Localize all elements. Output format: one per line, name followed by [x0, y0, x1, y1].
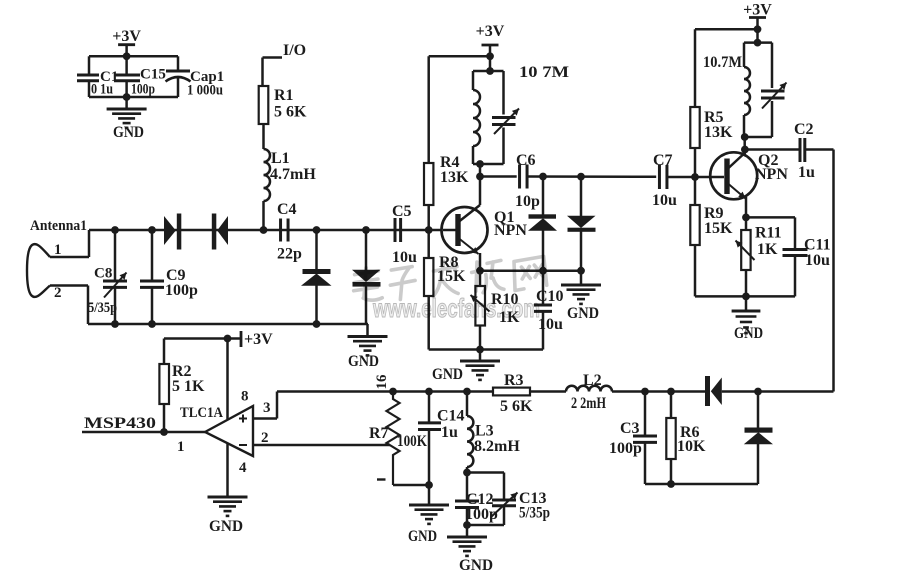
svg-text:5/35p: 5/35p	[88, 300, 117, 316]
node C12 ground junction	[463, 521, 471, 529]
watermark chinese glyphs	[352, 254, 547, 302]
wire C6 to C7	[527, 175, 656, 178]
capacitor C11 10u	[794, 217, 797, 249]
svg-text:GND: GND	[432, 366, 463, 383]
node clipper D5 tap	[539, 173, 547, 181]
svg-text:C14: C14	[437, 408, 465, 425]
power rail +3V (left tank)	[482, 44, 499, 47]
svg-text:R3: R3	[504, 372, 524, 389]
node Q2 rail ground	[742, 293, 750, 301]
svg-text:L1: L1	[271, 150, 290, 167]
svg-text:www.elecfans.com: www.elecfans.com	[372, 293, 540, 323]
svg-text:10u: 10u	[805, 252, 830, 269]
svg-text:100p: 100p	[609, 440, 642, 457]
wire antenna bottom rail	[88, 323, 368, 326]
diode D4 (clipper, cathode down)	[362, 226, 370, 234]
wire bottom rail of cap bank	[89, 96, 178, 99]
pin 2 of U1 (-)	[253, 444, 390, 447]
svg-text:2 2mH: 2 2mH	[571, 395, 606, 412]
svg-text:NPN: NPN	[755, 166, 788, 183]
wire I/O to R1	[263, 56, 283, 59]
capacitor C2 1u	[799, 138, 802, 162]
svg-text:I/O: I/O	[283, 42, 306, 59]
capacitor C3 100p	[644, 392, 647, 436]
svg-text:8: 8	[241, 389, 249, 405]
svg-text:15K: 15K	[704, 220, 733, 237]
diode D6 (clipper, cathode down)	[580, 177, 583, 216]
wire Q1 emitter rail	[480, 269, 581, 272]
ground GND (Q1 rail)	[479, 350, 482, 362]
power rail +3V (top-left)	[118, 43, 135, 46]
capacitor C15	[125, 56, 128, 75]
wire comparator input line (16)	[277, 390, 493, 393]
svg-text:1K: 1K	[757, 241, 778, 258]
svg-text:3: 3	[263, 400, 271, 416]
capacitor C10 10u	[542, 271, 545, 305]
power tap +3V (comparator)	[164, 337, 241, 340]
node R7 tap	[389, 388, 397, 396]
svg-text:10K: 10K	[677, 438, 706, 455]
inductor L3 8.2mH	[466, 392, 469, 417]
transistor Q1 NPN	[442, 207, 488, 253]
wire C2 to right vertical	[805, 148, 834, 151]
svg-text:10.7M: 10.7M	[703, 54, 742, 71]
svg-text:5 6K: 5 6K	[274, 104, 307, 121]
svg-text:5 6K: 5 6K	[500, 398, 533, 415]
node C2 tap	[741, 146, 749, 154]
svg-text:100p: 100p	[131, 82, 155, 98]
svg-text:Antenna1: Antenna1	[30, 218, 87, 234]
wire tank to Q1 collector node	[479, 164, 482, 177]
wire L2 to detector diode	[612, 390, 705, 393]
op-amp U1 TLC1A	[205, 406, 253, 456]
ground GND (Q2)	[745, 296, 748, 311]
node tank bottom	[476, 160, 484, 168]
svg-text:C5: C5	[392, 203, 412, 220]
svg-text:10u: 10u	[392, 249, 417, 266]
node L1/C4 junction	[260, 226, 268, 234]
svg-text:1u: 1u	[441, 424, 458, 441]
svg-text:C7: C7	[653, 152, 673, 169]
svg-text:10 7M: 10 7M	[519, 64, 569, 81]
svg-text:1: 1	[177, 439, 185, 455]
svg-text:10u: 10u	[652, 192, 677, 209]
wire +3V rail to R5	[695, 28, 758, 31]
svg-text:NPN: NPN	[494, 222, 527, 239]
ground GND (clipper pair)	[580, 271, 583, 285]
capacitor C9 100p	[148, 226, 156, 234]
inductor L1 4.7mH	[264, 149, 271, 201]
wire R5 to base node	[694, 148, 697, 177]
ground GND (cap bank)	[107, 108, 147, 111]
node R2 output junction	[160, 428, 168, 436]
svg-text:5/35p: 5/35p	[519, 505, 550, 522]
resistor R6 10K	[670, 392, 673, 419]
capacitor Cap1 (electrolytic)	[177, 56, 180, 71]
svg-text:22p: 22p	[277, 246, 302, 263]
svg-text:+3V: +3V	[476, 23, 505, 40]
node Q1 base / divider	[425, 226, 433, 234]
wire R1 to L1	[262, 124, 265, 149]
wire antenna pin2 to bottom rail	[50, 284, 88, 287]
svg-text:2: 2	[261, 430, 269, 446]
capacitor C8 5/35p (variable)	[111, 226, 119, 234]
wire RF bus	[89, 229, 443, 232]
svg-text:MSP430: MSP430	[84, 415, 156, 432]
wire top rail of cap bank	[89, 55, 178, 58]
resistor R9 15K	[694, 177, 697, 205]
resistor R2 5 1K	[163, 339, 166, 365]
svg-text:10u: 10u	[538, 316, 563, 333]
capacitor C12 100p	[466, 473, 469, 501]
svg-text:C15: C15	[140, 67, 166, 83]
resistor R1 5 6K	[259, 86, 269, 124]
capacitor C14 1u	[428, 392, 431, 422]
resistor R7 100K (zigzag)	[387, 392, 400, 486]
svg-text:C2: C2	[794, 121, 814, 138]
resistor R10 1K (variable)	[479, 271, 482, 286]
capacitor C13 5/35p (variable)	[503, 473, 506, 500]
tuned circuit 10 7M (left tank)	[489, 56, 492, 71]
svg-text:100p: 100p	[165, 282, 198, 299]
wire R3 to L2	[530, 390, 566, 393]
svg-text:GND: GND	[567, 305, 599, 322]
node D6 ground	[577, 267, 585, 275]
svg-text:C10: C10	[536, 288, 564, 305]
pin 4 of U1	[226, 443, 229, 497]
wire C12/C13 bottom rail	[467, 524, 504, 527]
svg-text:GND: GND	[408, 528, 437, 545]
ground GND (C14)	[428, 485, 431, 505]
wire collector to C2	[745, 148, 800, 151]
svg-text:C8: C8	[94, 266, 112, 282]
wire +3V rail to R4	[429, 55, 490, 58]
svg-text:C11: C11	[804, 237, 831, 254]
wire L1 to RF bus	[262, 201, 265, 230]
resistor R4 13K	[424, 163, 433, 205]
capacitor C4 22p	[279, 219, 282, 242]
diode D1 (bus, anode left)	[164, 216, 176, 245]
wire Q1 bottom rail	[429, 348, 543, 351]
node L3 bottom junction	[463, 469, 471, 477]
capacitor C7 10u	[658, 165, 661, 189]
wire C7 to Q2 base node	[667, 176, 695, 179]
node Q2 emitter	[742, 214, 750, 222]
svg-text:13K: 13K	[440, 169, 469, 186]
node right tank bottom	[741, 133, 749, 141]
wire collector line to C6	[480, 175, 517, 178]
svg-text:4.7mH: 4.7mH	[270, 166, 316, 183]
node D8 tap	[754, 388, 762, 396]
resistor R5 13K	[690, 107, 699, 148]
node R6 tap	[667, 388, 675, 396]
wire emitter to C11	[746, 216, 795, 219]
node C14 top	[425, 388, 433, 396]
power rail +3V (top right)	[749, 16, 766, 19]
svg-text:8.2mH: 8.2mH	[474, 438, 520, 455]
svg-text:GND: GND	[459, 557, 493, 573]
node clipper D6 tap	[577, 173, 585, 181]
capacitor C5 10u	[394, 218, 397, 242]
svg-text:1 000u: 1 000u	[187, 83, 223, 99]
diode D2 (bus, anode right)	[212, 214, 217, 250]
svg-text:+3V: +3V	[112, 28, 141, 45]
wire detector bottom rail	[645, 483, 758, 486]
svg-text:0 1u: 0 1u	[91, 82, 113, 98]
node Q1 rail ground	[476, 346, 484, 354]
diode D8 (cathode up)	[757, 392, 760, 428]
svg-text:C4: C4	[277, 201, 297, 218]
wire R4 to Q1 base node	[427, 205, 430, 230]
pin 8 of U1	[226, 339, 229, 420]
ground GND (C12/C13)	[466, 525, 469, 537]
tuned circuit 10.7M (right tank)	[756, 29, 759, 42]
svg-text:GND: GND	[113, 124, 144, 141]
capacitor C6 10p	[518, 165, 521, 189]
svg-text:2: 2	[54, 285, 62, 301]
node Q2 base / R5 / R9	[691, 173, 699, 181]
svg-text:L2: L2	[583, 372, 602, 389]
diode D5 (clipper, cathode up)	[542, 177, 545, 215]
node C3 tap	[641, 388, 649, 396]
resistor R11 1K (variable)	[745, 217, 748, 230]
svg-text:100K: 100K	[397, 433, 427, 450]
node Q1 collector	[476, 173, 484, 181]
wire right vertical (C2 to detector)	[832, 150, 835, 392]
wire antenna pin1 to bus	[50, 256, 89, 259]
minus label (R7 bottom)	[377, 478, 386, 480]
capacitor C1	[88, 56, 91, 75]
svg-text:GND: GND	[734, 325, 763, 342]
node Q1 emitter	[476, 267, 484, 275]
diode D3 (clipper, cathode up)	[313, 226, 321, 234]
wire diode D7 to right vertical	[722, 390, 834, 393]
ground GND (antenna rail)	[366, 324, 369, 337]
svg-text:10p: 10p	[515, 193, 540, 210]
svg-text:13K: 13K	[704, 124, 733, 141]
svg-text:+3V: +3V	[743, 2, 772, 19]
wire Q2 bottom rail	[695, 295, 795, 298]
ground GND (U1)	[208, 496, 248, 499]
svg-text:5 1K: 5 1K	[172, 378, 205, 395]
pin 3 of U1 (+)	[253, 417, 277, 420]
svg-text:1: 1	[54, 242, 62, 258]
resistor R8 15K	[427, 230, 430, 258]
resistor R3 5 6K	[493, 388, 530, 396]
svg-text:4: 4	[239, 460, 247, 476]
node R6 bottom	[667, 480, 675, 488]
svg-text:+3V: +3V	[244, 331, 273, 348]
svg-text:R7: R7	[369, 425, 389, 442]
node C10 tap	[539, 267, 547, 275]
svg-text:L3: L3	[475, 423, 494, 440]
svg-text:TLC1A: TLC1A	[180, 405, 223, 421]
svg-text:C3: C3	[620, 420, 640, 437]
diode D7 (detector, cathode left)	[705, 376, 710, 406]
svg-text:C6: C6	[516, 152, 536, 169]
svg-text:R11: R11	[755, 225, 782, 242]
transistor Q2 NPN	[743, 137, 746, 156]
svg-text:R1: R1	[274, 87, 294, 104]
svg-text:GND: GND	[209, 518, 243, 535]
node cap bank ground stem	[123, 93, 131, 101]
wire R7 bottom rail	[393, 484, 429, 487]
node C14 bottom junction	[425, 481, 433, 489]
node top-left cap bank +3V	[123, 52, 131, 60]
svg-text:GND: GND	[348, 353, 379, 370]
svg-text:1u: 1u	[798, 164, 815, 181]
svg-text:16: 16	[374, 374, 390, 390]
wire L3 junction to C13	[467, 471, 504, 474]
inductor L2 2 2mH	[566, 386, 612, 392]
node L3 top	[463, 388, 471, 396]
